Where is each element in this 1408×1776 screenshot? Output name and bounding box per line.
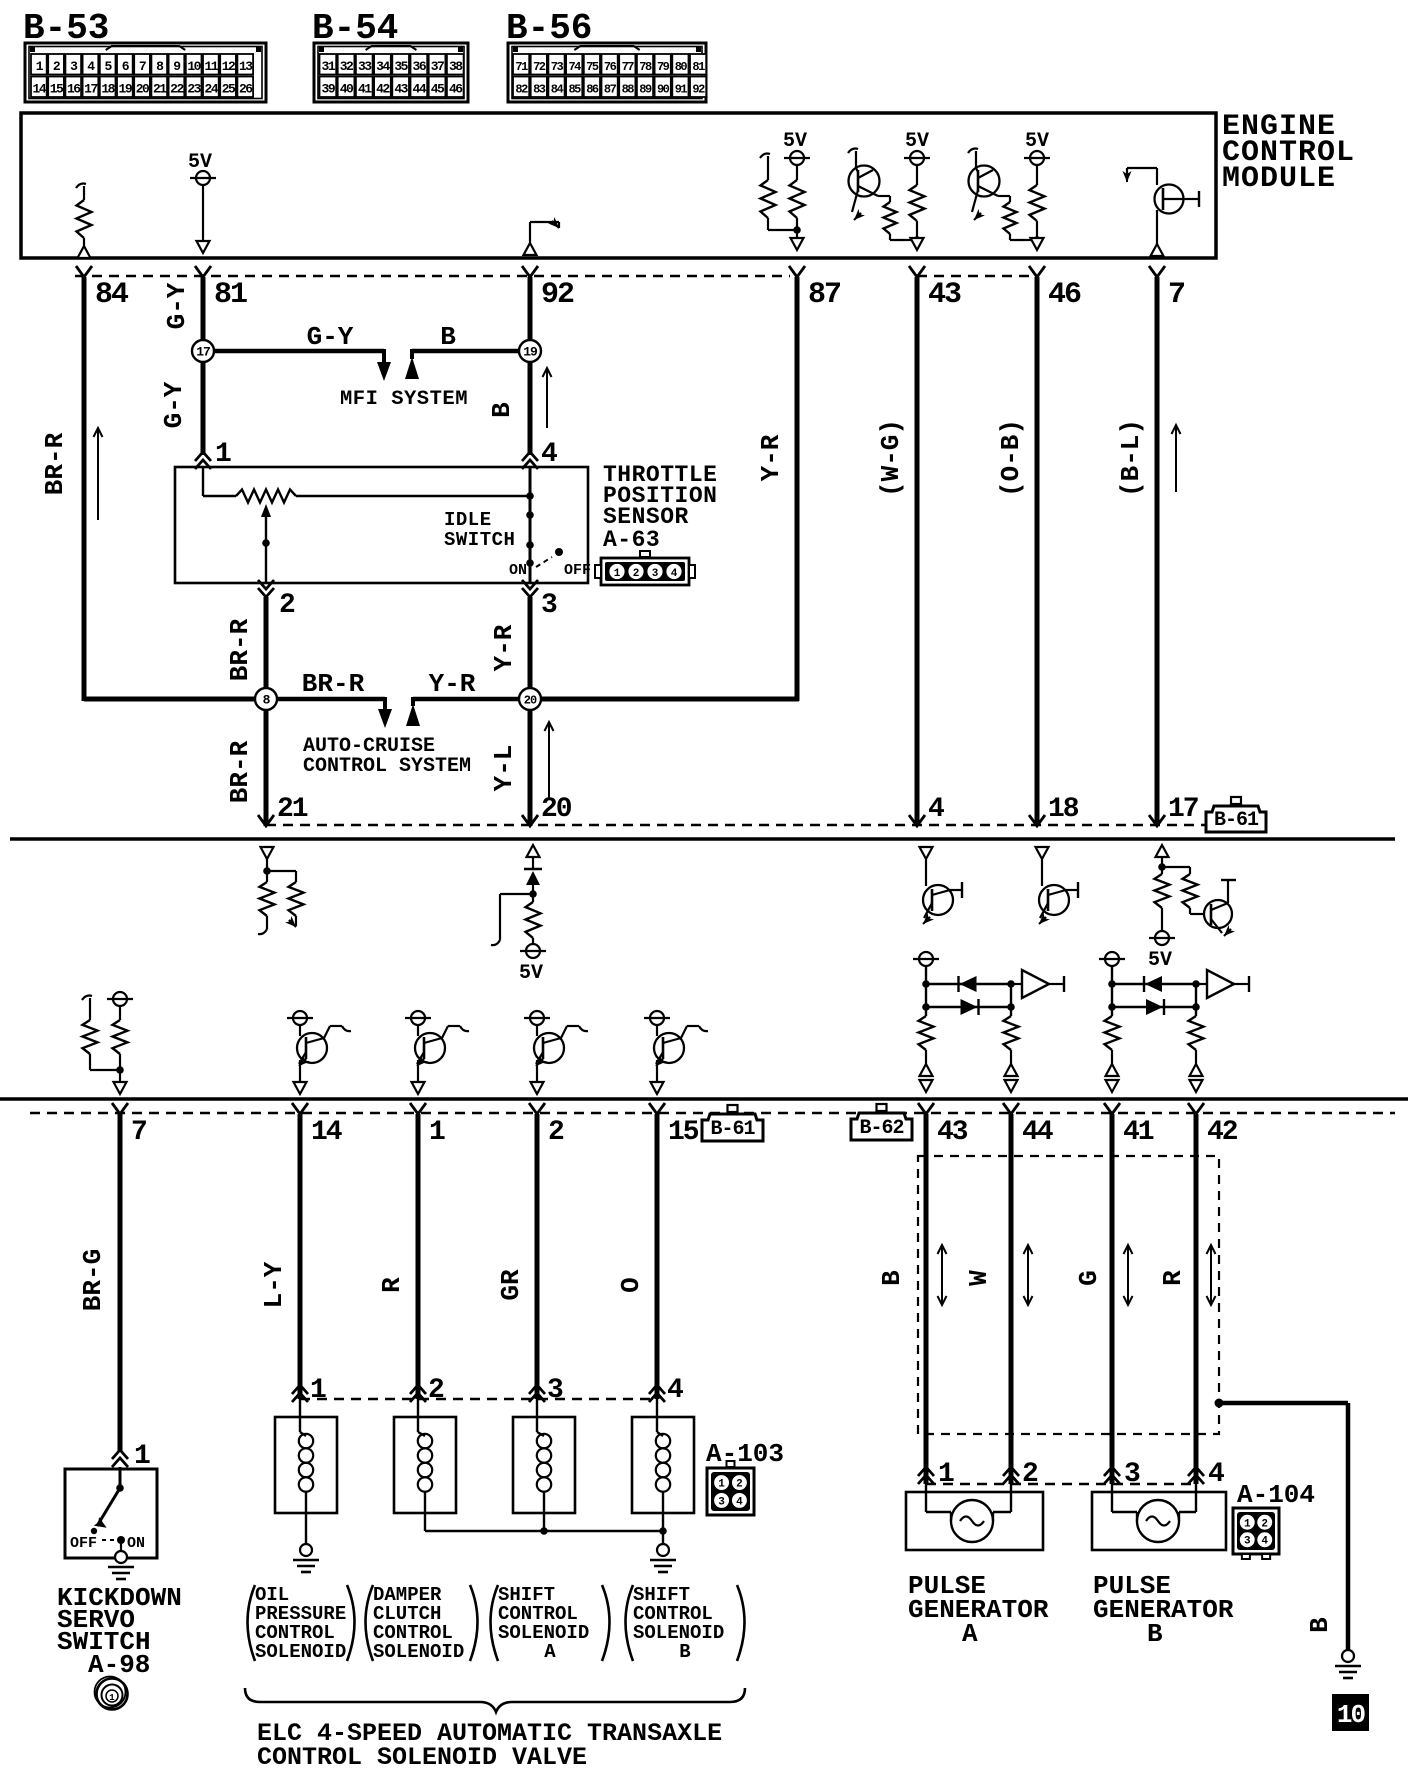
- svg-text:90: 90: [657, 83, 670, 97]
- svg-text:5V: 5V: [1148, 949, 1172, 972]
- svg-text:Y-R: Y-R: [489, 624, 519, 671]
- svg-text:72: 72: [533, 60, 546, 74]
- svg-text:G: G: [1074, 1270, 1104, 1286]
- svg-text:43: 43: [928, 278, 961, 312]
- svg-text:3: 3: [547, 1375, 564, 1406]
- svg-text:4: 4: [667, 1375, 684, 1406]
- svg-text:35: 35: [394, 59, 408, 74]
- svg-text:26: 26: [239, 82, 253, 97]
- svg-text:3: 3: [1124, 1459, 1141, 1490]
- svg-text:1: 1: [938, 1459, 955, 1490]
- svg-text:B: B: [1147, 1619, 1163, 1649]
- svg-text:41: 41: [358, 82, 372, 97]
- svg-text:7: 7: [1168, 278, 1184, 312]
- svg-text:SWITCH: SWITCH: [444, 529, 515, 551]
- svg-text:38: 38: [449, 59, 463, 74]
- svg-text:1: 1: [718, 1479, 725, 1491]
- svg-text:44: 44: [1022, 1117, 1053, 1148]
- svg-text:BR-R: BR-R: [225, 740, 255, 803]
- svg-text:12: 12: [222, 59, 236, 74]
- svg-text:B-61: B-61: [710, 1118, 755, 1141]
- svg-text:92: 92: [541, 278, 574, 312]
- svg-text:G-Y: G-Y: [159, 381, 189, 428]
- svg-text:5V: 5V: [783, 130, 807, 153]
- svg-text:1: 1: [109, 1693, 115, 1703]
- svg-text:A-63: A-63: [603, 527, 660, 553]
- svg-text:MFI SYSTEM: MFI SYSTEM: [340, 388, 468, 411]
- svg-text:B: B: [487, 402, 517, 418]
- svg-text:18: 18: [1048, 794, 1079, 825]
- svg-text:ON: ON: [509, 562, 527, 579]
- svg-text:83: 83: [533, 83, 546, 97]
- svg-text:25: 25: [222, 82, 236, 97]
- svg-text:2: 2: [279, 590, 296, 621]
- svg-text:5V: 5V: [519, 962, 543, 985]
- svg-text:4: 4: [671, 568, 678, 580]
- svg-text:B-61: B-61: [1214, 809, 1259, 832]
- svg-text:GR: GR: [496, 1269, 526, 1301]
- svg-text:15: 15: [50, 82, 64, 97]
- svg-text:31: 31: [322, 59, 336, 74]
- svg-text:A: A: [544, 1641, 556, 1663]
- svg-text:(B-L): (B-L): [1116, 419, 1146, 497]
- svg-text:84: 84: [95, 278, 129, 312]
- svg-text:2: 2: [428, 1375, 445, 1406]
- svg-text:81: 81: [214, 278, 247, 312]
- svg-text:22: 22: [170, 82, 184, 97]
- svg-text:BR-R: BR-R: [302, 669, 365, 699]
- svg-text:79: 79: [657, 60, 670, 74]
- svg-text:86: 86: [586, 83, 599, 97]
- svg-text:CONTROL SYSTEM: CONTROL SYSTEM: [303, 755, 471, 778]
- svg-text:R: R: [1158, 1270, 1188, 1286]
- svg-text:45: 45: [431, 82, 445, 97]
- svg-text:3: 3: [718, 1496, 725, 1508]
- svg-text:36: 36: [413, 59, 427, 74]
- svg-text:23: 23: [187, 82, 201, 97]
- svg-text:33: 33: [358, 59, 372, 74]
- svg-text:4: 4: [1208, 1459, 1225, 1490]
- svg-text:87: 87: [808, 278, 840, 312]
- svg-text:46: 46: [449, 82, 463, 97]
- svg-text:R: R: [377, 1277, 407, 1293]
- svg-text:88: 88: [622, 83, 635, 97]
- svg-text:73: 73: [551, 60, 564, 74]
- svg-text:19: 19: [523, 345, 538, 360]
- svg-text:42: 42: [1207, 1117, 1238, 1148]
- svg-text:5V: 5V: [905, 130, 929, 153]
- svg-text:71: 71: [515, 60, 528, 74]
- svg-text:81: 81: [692, 60, 705, 74]
- svg-text:B: B: [679, 1641, 690, 1663]
- svg-text:20: 20: [524, 693, 537, 707]
- svg-text:SOLENOID: SOLENOID: [373, 1641, 464, 1663]
- svg-text:4: 4: [736, 1496, 743, 1508]
- svg-text:84: 84: [551, 83, 564, 97]
- svg-text:80: 80: [675, 60, 688, 74]
- svg-text:75: 75: [586, 60, 599, 74]
- svg-text:B: B: [877, 1270, 907, 1286]
- svg-text:1: 1: [215, 439, 232, 470]
- svg-text:74: 74: [568, 60, 581, 74]
- svg-text:4: 4: [1261, 1536, 1268, 1548]
- svg-text:(O-B): (O-B): [996, 419, 1026, 497]
- svg-text:A-103: A-103: [706, 1439, 784, 1469]
- svg-text:8: 8: [263, 693, 271, 708]
- svg-text:BR-R: BR-R: [40, 432, 70, 495]
- svg-text:4: 4: [928, 794, 945, 825]
- svg-text:OFF: OFF: [70, 1535, 97, 1552]
- svg-text:14: 14: [33, 82, 47, 97]
- svg-text:21: 21: [153, 82, 167, 97]
- svg-text:89: 89: [639, 83, 652, 97]
- svg-text:32: 32: [340, 59, 354, 74]
- svg-text:78: 78: [639, 60, 652, 74]
- svg-text:10: 10: [187, 59, 201, 74]
- svg-text:2: 2: [1261, 1518, 1268, 1530]
- svg-text:21: 21: [277, 794, 308, 825]
- svg-text:24: 24: [205, 82, 219, 97]
- svg-text:18: 18: [101, 82, 115, 97]
- svg-text:G-Y: G-Y: [307, 322, 354, 352]
- svg-text:7: 7: [139, 59, 146, 74]
- svg-text:16: 16: [67, 82, 81, 97]
- svg-text:(W-G): (W-G): [876, 419, 906, 497]
- svg-text:41: 41: [1123, 1117, 1154, 1148]
- svg-text:17: 17: [196, 345, 210, 360]
- svg-text:Y-L: Y-L: [489, 745, 519, 792]
- svg-text:GENERATOR: GENERATOR: [1093, 1595, 1234, 1625]
- svg-text:A: A: [962, 1619, 978, 1649]
- svg-text:43: 43: [937, 1117, 968, 1148]
- svg-text:B-62: B-62: [859, 1117, 903, 1140]
- svg-text:11: 11: [205, 59, 219, 74]
- svg-text:G-Y: G-Y: [162, 282, 192, 329]
- svg-text:2: 2: [548, 1117, 564, 1148]
- svg-text:BR-G: BR-G: [78, 1249, 108, 1311]
- svg-text:20: 20: [541, 794, 572, 825]
- svg-text:W: W: [964, 1270, 994, 1286]
- svg-text:3: 3: [652, 568, 659, 580]
- svg-text:GENERATOR: GENERATOR: [908, 1595, 1049, 1625]
- svg-text:2: 2: [633, 568, 640, 580]
- svg-text:7: 7: [131, 1117, 146, 1148]
- svg-text:CONTROL SOLENOID VALVE: CONTROL SOLENOID VALVE: [257, 1743, 587, 1772]
- svg-text:34: 34: [376, 59, 390, 74]
- svg-text:ON: ON: [127, 1535, 145, 1552]
- svg-text:B: B: [440, 322, 456, 352]
- svg-text:O: O: [616, 1277, 646, 1293]
- svg-text:10: 10: [1337, 1700, 1366, 1730]
- svg-text:40: 40: [340, 82, 354, 97]
- svg-text:BR-R: BR-R: [225, 618, 255, 681]
- svg-text:A-98: A-98: [88, 1650, 150, 1680]
- svg-text:87: 87: [604, 83, 617, 97]
- svg-text:Y-R: Y-R: [429, 669, 476, 699]
- svg-text:MODULE: MODULE: [1222, 162, 1336, 196]
- svg-text:82: 82: [515, 83, 528, 97]
- svg-text:IDLE: IDLE: [444, 509, 492, 531]
- svg-text:20: 20: [136, 82, 150, 97]
- svg-text:17: 17: [1168, 794, 1198, 825]
- svg-text:Y-R: Y-R: [756, 434, 786, 481]
- svg-text:1: 1: [134, 1441, 151, 1472]
- svg-text:L-Y: L-Y: [259, 1261, 289, 1308]
- svg-text:43: 43: [394, 82, 408, 97]
- svg-text:44: 44: [413, 82, 427, 97]
- svg-text:SOLENOID: SOLENOID: [255, 1641, 346, 1663]
- svg-text:1: 1: [310, 1375, 327, 1406]
- svg-text:A-104: A-104: [1237, 1480, 1315, 1510]
- svg-text:77: 77: [622, 60, 635, 74]
- svg-text:39: 39: [322, 82, 336, 97]
- svg-text:B: B: [1305, 1617, 1335, 1633]
- svg-text:4: 4: [541, 439, 558, 470]
- svg-text:1: 1: [1244, 1518, 1251, 1530]
- svg-text:13: 13: [239, 59, 253, 74]
- svg-text:85: 85: [568, 83, 581, 97]
- svg-text:OFF: OFF: [564, 562, 591, 579]
- svg-text:15: 15: [668, 1117, 699, 1148]
- svg-text:5V: 5V: [1025, 130, 1049, 153]
- svg-text:1: 1: [429, 1117, 445, 1148]
- svg-text:76: 76: [604, 60, 617, 74]
- svg-text:37: 37: [431, 59, 444, 74]
- svg-text:1: 1: [614, 568, 621, 580]
- svg-text:3: 3: [1244, 1536, 1251, 1548]
- svg-text:92: 92: [692, 83, 705, 97]
- svg-text:14: 14: [311, 1117, 342, 1148]
- svg-text:3: 3: [541, 590, 558, 621]
- svg-text:19: 19: [119, 82, 133, 97]
- svg-text:91: 91: [675, 83, 688, 97]
- svg-text:2: 2: [1022, 1459, 1039, 1490]
- svg-text:46: 46: [1048, 278, 1081, 312]
- svg-text:42: 42: [376, 82, 390, 97]
- svg-text:17: 17: [84, 82, 97, 97]
- svg-text:2: 2: [736, 1479, 743, 1491]
